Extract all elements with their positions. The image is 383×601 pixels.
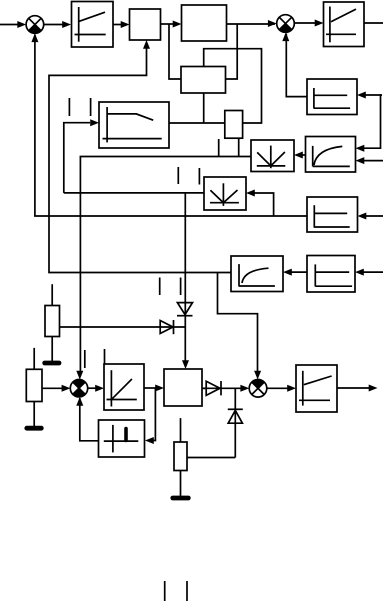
wire A15 to A17 with branch to A16: [144, 387, 157, 389]
tick marks pair 1: [68, 98, 70, 116]
wire A7 to A8: [300, 154, 306, 156]
curve block A13: [231, 256, 283, 292]
wire into A14 right: [362, 271, 383, 273]
small block A11: [225, 111, 243, 139]
summing junction S2: [277, 15, 295, 33]
summing junction S3: [70, 379, 87, 397]
wire A12 output to S1 bottom feedback: [35, 35, 307, 217]
wire R2 tap to S3: [42, 387, 62, 389]
wire S1 to A1: [44, 24, 63, 26]
wire A14 to A13: [289, 271, 307, 273]
wire drop to S4 top: [218, 273, 258, 373]
wire VD4 to R3 tap: [187, 457, 235, 459]
graph block A9: [99, 102, 169, 148]
block A17: [164, 369, 202, 406]
wire A16 output to S3 bottom: [80, 398, 99, 441]
resistor R1: [45, 284, 60, 361]
wire A3 to S2: [227, 23, 276, 25]
wire S3 to A15: [88, 387, 96, 389]
limiter block A12: [307, 197, 358, 232]
wire A9 output to A11: [169, 122, 225, 124]
wire branch A3 output down to A5 right: [226, 24, 238, 79]
tick marks pair 2: [218, 139, 220, 157]
wire S2 to A4: [294, 22, 315, 24]
amplifier block A18: [296, 365, 337, 412]
wire A18 output: [337, 387, 370, 389]
wire into A12 right: [364, 215, 383, 217]
diode VD3: [202, 381, 243, 395]
wire A10 output left: [64, 192, 204, 194]
wire A1 to A2: [113, 24, 122, 26]
tick marks pair 6: [164, 581, 166, 601]
zener diode VD4: [228, 388, 243, 457]
resistor R2: [26, 348, 42, 426]
tick marks pair 4: [159, 278, 161, 296]
tick marks pair 5: [84, 350, 86, 368]
ground for R2: [27, 426, 42, 431]
block A5: [181, 67, 226, 94]
amplifier block A4: [324, 2, 365, 47]
wire R1 tap to diode line: [60, 326, 161, 328]
wire A17 output to diode VD3: [202, 387, 206, 389]
block A2: [130, 9, 161, 40]
resistor R3: [174, 418, 187, 496]
wire A2 to A3: [161, 23, 174, 25]
summing junction S1: [26, 16, 44, 34]
limiter block A6: [307, 79, 357, 115]
wire A5 top from crossbar: [204, 49, 262, 123]
ground for R3: [173, 496, 189, 501]
ramp block A15: [104, 364, 144, 410]
impulse block A16: [99, 420, 145, 457]
amplifier block A1: [72, 2, 114, 48]
wire B14-to-A2 feedback path: [49, 47, 231, 273]
wire into A10 right from feedback line: [252, 193, 274, 216]
diode VD2: [160, 320, 185, 334]
curve block A7: [306, 137, 356, 173]
min-gate block A10: [204, 177, 246, 210]
arrow into A17 top: [182, 360, 189, 369]
wire A10-out up into A9 left: [64, 123, 90, 193]
zener diode VD1: [177, 193, 193, 361]
wire into A6 right: [363, 95, 382, 148]
wire into A7 right lower: [363, 160, 383, 162]
summing junction S4: [249, 380, 267, 398]
min-gate block A8: [251, 140, 294, 172]
ground for R1: [45, 361, 59, 366]
wire input to S1: [0, 24, 20, 26]
block A3: [182, 5, 227, 41]
wire A8 output to left drop: [80, 157, 251, 372]
wire A6 output to S2 bottom: [286, 34, 307, 97]
wire S4 to A18: [267, 387, 288, 389]
wire branch A2 output down to A5 left: [169, 24, 181, 79]
wire A4 output to edge: [364, 22, 383, 24]
tick marks pair 3: [177, 167, 179, 184]
wire A5 bottom to node line: [203, 93, 205, 123]
limiter block A14: [307, 256, 355, 293]
